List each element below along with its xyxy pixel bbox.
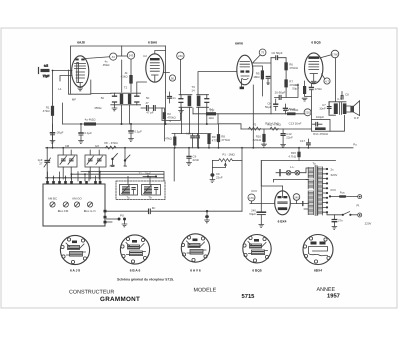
svg-text:240: 240 [294, 195, 299, 199]
svg-text:RF - 87kΩ: RF - 87kΩ [104, 141, 118, 145]
svg-text:AM BC: AM BC [48, 197, 57, 201]
svg-text:L1: L1 [58, 87, 62, 91]
svg-text:T1 - 18pF: T1 - 18pF [139, 172, 152, 176]
variable capacitor CV1 [120, 185, 138, 200]
knob 4 [84, 202, 97, 213]
wire: box-left vertical to bus [62, 103, 64, 124]
wire: 75 to plate [253, 55, 260, 63]
mid cluster rail y133.5 [172, 133, 211, 135]
knob 3 [72, 197, 82, 208]
tube V4 6BQ5 [305, 53, 323, 84]
svg-text:6 A J 8: 6 A J 8 [70, 269, 80, 273]
electrolytic 50uF [265, 99, 278, 111]
svg-text:Pl.: Pl. [357, 204, 361, 208]
wires down to control box terminals [48, 172, 101, 181]
svg-text:R11 4.7kΩ: R11 4.7kΩ [267, 123, 281, 127]
resistor R1 47k vertical [43, 106, 54, 116]
svg-text:4.7kΩ: 4.7kΩ [288, 155, 296, 159]
wire: V1 plate to node 44 [86, 57, 110, 59]
svg-text:27: 27 [39, 162, 43, 166]
triode section box around V1 [69, 70, 91, 94]
capacitor top coupling C8 [341, 92, 349, 100]
wire: screen line [164, 46, 170, 92]
svg-text:Bloc G.O.: Bloc G.O. [84, 209, 97, 213]
svg-text:245: 245 [129, 54, 134, 58]
dial lamps LL [276, 165, 306, 176]
variable capacitor CV2 [142, 185, 161, 200]
svg-text:455kc: 455kc [94, 106, 102, 110]
svg-text:P1 - 1MΩ: P1 - 1MΩ [222, 153, 235, 157]
wire: T3 right cap leg down [206, 107, 208, 124]
node 50 [169, 75, 175, 81]
wire: node44 to node245 [117, 55, 127, 57]
knob 2 [58, 202, 69, 213]
fuse row [329, 190, 362, 198]
svg-text:27n: 27n [338, 219, 343, 223]
wire: V2 plate up right [155, 51, 166, 54]
node 220 [265, 97, 311, 126]
antenna input terminal [39, 64, 50, 79]
resistor R2 470k detector [162, 108, 176, 141]
svg-text:C8: C8 [345, 93, 349, 97]
resistor R7 470k [284, 79, 298, 97]
svg-text:B+: B+ [152, 206, 156, 210]
wire: antenna to V1 grid [53, 70, 73, 72]
svg-text:.05µF: .05µF [56, 131, 64, 135]
node 176 [248, 194, 255, 204]
svg-text:170Ω: 170Ω [315, 87, 323, 91]
tube base B2 [120, 235, 149, 264]
node 75 [259, 49, 266, 56]
wire: converter box right vertical [121, 46, 123, 92]
wire: plate to 1760 down to output transformer [320, 55, 336, 102]
node 245 [127, 52, 134, 59]
resistor R5 1M grid [253, 66, 264, 96]
resistor R3 470k [165, 134, 176, 148]
svg-text:470kΩ: 470kΩ [289, 66, 298, 70]
wire: x198 down from T3 [198, 107, 200, 148]
wire: T3 grid line to V3 [198, 72, 237, 95]
knob 1 [48, 197, 57, 208]
feedback network box [311, 115, 330, 136]
svg-text:1kΩ: 1kΩ [208, 116, 214, 120]
wire: x242 vertical [241, 148, 243, 211]
svg-text:6V3: 6V3 [251, 189, 257, 193]
label T1 18pF [139, 172, 158, 178]
wire: T2 to V2 grid [137, 82, 147, 93]
svg-text:50µF: 50µF [292, 87, 299, 91]
wire: T3 top to y113.8 [192, 108, 194, 114]
svg-text:CONSTRUCTEUR: CONSTRUCTEUR [69, 290, 114, 296]
svg-text:Ta: Ta [312, 162, 315, 166]
capacitor C6 50pF [271, 51, 286, 60]
resistor 4.7k on rail [267, 123, 281, 131]
wire: antenna line down [52, 103, 54, 148]
svg-text:6 BA6: 6 BA6 [148, 41, 157, 45]
resistor 4k7 osc [121, 71, 133, 84]
svg-text:S: S [169, 119, 171, 123]
svg-text:50: 50 [101, 96, 105, 100]
capacitor screen bypass [168, 92, 176, 103]
svg-text:47: 47 [145, 101, 149, 105]
wire: antenna down line [52, 71, 54, 104]
svg-text:Bloc FM: Bloc FM [58, 209, 69, 213]
svg-text:ANNEE: ANNEE [317, 287, 336, 293]
svg-text:477kΩ: 477kΩ [221, 138, 230, 142]
svg-text:10n: 10n [186, 132, 191, 136]
rectifier tube V5 6BX4 [275, 186, 291, 223]
svg-text:22nF: 22nF [193, 158, 200, 162]
svg-text:47kΩ: 47kΩ [165, 137, 173, 141]
svg-text:220: 220 [305, 111, 310, 115]
tuning gang dashed box [116, 181, 165, 200]
svg-text:L.L.: L.L. [290, 165, 295, 169]
svg-text:45kΩ: 45kΩ [103, 63, 111, 67]
svg-text:a.2: a.2 [44, 64, 48, 68]
capacitor mains filter [332, 215, 343, 230]
wire: x165 vertical lower [165, 92, 167, 124]
heater line [274, 179, 309, 181]
svg-text:14: 14 [191, 89, 195, 93]
svg-text:1760: 1760 [332, 52, 339, 56]
svg-text:246: 246 [178, 54, 183, 58]
svg-text:GO: GO [95, 144, 100, 148]
connector rails above box [46, 172, 164, 181]
svg-text:H.P.: H.P. [354, 116, 359, 120]
capacitor 0.1 right [129, 124, 143, 141]
svg-text:6AV6: 6AV6 [235, 42, 243, 46]
junction dots above box [47, 171, 101, 179]
wire: T3 secondary down legs [182, 107, 190, 133]
wire: x253.3 vertical [252, 85, 254, 148]
output transformer CS [329, 97, 350, 115]
wire: node245 down to IF T2 [130, 59, 132, 92]
svg-text:5715: 5715 [242, 294, 256, 300]
svg-text:PU: PU [120, 214, 124, 218]
svg-text:50µF: 50µF [249, 212, 256, 216]
capacitor 22nF below pot [210, 168, 223, 183]
svg-text:MF: MF [72, 98, 76, 102]
capacitor 20-50pF coupling [275, 84, 299, 99]
node 246 [177, 52, 184, 59]
wire: corner to P2 rail [218, 114, 241, 129]
svg-text:6AJ8: 6AJ8 [77, 41, 85, 45]
capacitor C7 tone [319, 102, 331, 113]
wire: rectifier cathode to B+ [261, 161, 282, 186]
padder trimmers group 2 [85, 150, 106, 179]
B+ line y160.6 [261, 160, 335, 162]
tube base B5 [303, 235, 333, 265]
svg-text:6 BQ5: 6 BQ5 [311, 41, 320, 45]
line y113.8 [193, 113, 304, 115]
tube base B4 [243, 235, 271, 263]
svg-text:22nF: 22nF [286, 136, 293, 140]
svg-text:50: 50 [146, 96, 150, 100]
cathode RC group 6BQ5 [292, 81, 322, 101]
wire: V3 plate right [253, 58, 271, 114]
control box [43, 181, 107, 226]
wire: x174 vertical to tuning box [173, 148, 175, 181]
svg-text:1MΩ: 1MΩ [253, 75, 260, 79]
svg-text:Schéma général du récepteur 57: Schéma général du récepteur 5715. [117, 278, 174, 282]
svg-text:22nF: 22nF [216, 176, 223, 180]
svg-text:C6 50pF: C6 50pF [271, 51, 282, 55]
capacitor 22nF right [281, 129, 293, 147]
filament line y203.5 [250, 203, 309, 205]
svg-text:1n: 1n [172, 96, 176, 100]
IF transformer T2 [111, 86, 141, 125]
svg-text:50µF: 50µF [265, 105, 272, 109]
svg-text:6 A V 6: 6 A V 6 [190, 269, 201, 273]
P2 rail y129 [241, 128, 311, 130]
junction cap to ground on B+ line [205, 210, 210, 223]
svg-text:0.1µF: 0.1µF [85, 131, 93, 135]
svg-text:10nF: 10nF [319, 107, 326, 111]
svg-text:77pF: 77pF [43, 74, 50, 78]
IF transformer T3 [179, 85, 209, 113]
resistor R6 470k [284, 58, 298, 80]
svg-text:50: 50 [171, 76, 175, 80]
B+ line right of control box [107, 206, 243, 214]
tube base B1 [60, 235, 89, 264]
svg-text:Tb: Tb [148, 195, 152, 199]
svg-text:6 B A 6: 6 B A 6 [130, 269, 141, 273]
wire: box lower pin right [107, 221, 113, 223]
svg-text:Ta: Ta [126, 195, 129, 199]
volume pot P1 [212, 153, 242, 168]
svg-text:R14 470kΩ: R14 470kΩ [313, 132, 328, 136]
svg-text:44: 44 [112, 55, 116, 59]
tube V2 6BA6 [146, 54, 164, 82]
svg-text:4.7: 4.7 [325, 79, 329, 83]
resistor R4 100 [206, 112, 216, 115]
svg-text:C17: C17 [300, 139, 306, 143]
svg-text:Fus.: Fus. [340, 190, 346, 194]
svg-text:6 BX4: 6 BX4 [278, 219, 287, 223]
svg-text:176: 176 [249, 196, 254, 200]
svg-text:AM: AM [65, 144, 70, 148]
wire: verticals tuning box [128, 176, 150, 184]
wire: bottom rail to T2 [91, 93, 111, 95]
svg-text:AM GO: AM GO [72, 197, 82, 201]
svg-text:220V: 220V [365, 222, 372, 226]
tube V3 6AV6 [237, 55, 253, 89]
svg-text:100µF: 100µF [316, 115, 324, 119]
svg-text:47kΩ: 47kΩ [43, 109, 51, 113]
speaker HP [350, 101, 359, 120]
svg-text:6 BQ5: 6 BQ5 [252, 269, 261, 273]
svg-text:GRAMMONT: GRAMMONT [100, 296, 140, 303]
converter stage box [71, 46, 166, 94]
wire: screen to node 4.7 [322, 74, 325, 79]
svg-text:6BX4: 6BX4 [314, 269, 322, 273]
svg-text:T2: T2 [124, 86, 128, 90]
switch S1 row [327, 212, 362, 217]
node 240 [293, 194, 300, 204]
misc small value labels [58, 54, 371, 226]
svg-text:320V: 320V [331, 173, 338, 177]
bus B+ y124 left [63, 123, 219, 125]
capacitor grid V3 [266, 76, 270, 84]
bus AVC y148 [46, 147, 353, 149]
svg-text:C.S.: C.S. [337, 97, 343, 101]
svg-text:1957: 1957 [327, 293, 340, 300]
resistor R10 220k [253, 129, 267, 147]
resistor RF 87k zigzag [104, 141, 118, 149]
svg-text:R13 470kΩ: R13 470kΩ [284, 108, 299, 112]
pot P2 zigzag [249, 123, 261, 131]
resistor R8 vertical [217, 124, 231, 148]
resistor R9 477k [207, 134, 221, 148]
padder trimmers group 1 [58, 148, 77, 179]
wire: detector out to volume [162, 108, 180, 121]
svg-text:47 pF: 47 pF [146, 111, 154, 115]
wire: grid coupling V1 to left [60, 76, 72, 82]
power transformer TA [304, 162, 337, 216]
ground stub V3 cathode [241, 85, 243, 87]
svg-text:6V3: 6V3 [331, 188, 337, 192]
svg-text:0.1µF: 0.1µF [135, 130, 143, 134]
svg-text:75: 75 [261, 51, 265, 55]
svg-text:R4: R4 [209, 108, 213, 112]
svg-text:C13 20nF: C13 20nF [289, 122, 302, 126]
svg-text:Pu: Pu [353, 143, 357, 147]
tube V1 6AJ8 [72, 56, 89, 91]
wire: node246 down to T3 [179, 59, 181, 94]
node 4.7 [324, 78, 330, 84]
resistor 4k7 on bus [84, 122, 96, 125]
capacitor 22nF mid [187, 148, 200, 166]
node 44 [103, 53, 117, 67]
capacitor .05 left [50, 124, 64, 143]
svg-text:MODELE: MODELE [194, 288, 217, 294]
resistor 150ohm [288, 148, 300, 161]
PU terminals [107, 214, 127, 227]
detector caps 47pF [141, 101, 162, 115]
svg-text:41/8: 41/8 [109, 164, 115, 168]
switch wafer symbols [109, 148, 130, 168]
capacitor 0.1 mid [79, 124, 93, 143]
svg-text:220kΩ: 220kΩ [253, 138, 262, 142]
wire: secondary return to feedback box [330, 115, 345, 131]
svg-text:C2: C2 [143, 54, 147, 58]
node 1760 [331, 50, 339, 58]
svg-text:4a 4k2Ω: 4a 4k2Ω [85, 118, 97, 122]
capacitor C17 small [300, 139, 311, 148]
trimmer cap left [38, 148, 51, 181]
filter cap 50uF [249, 161, 265, 228]
capacitor CH2 [284, 104, 296, 114]
capacitor 10nF pair [186, 132, 199, 148]
svg-text:20-50pF: 20-50pF [275, 91, 286, 95]
tube base B3 [181, 234, 209, 262]
